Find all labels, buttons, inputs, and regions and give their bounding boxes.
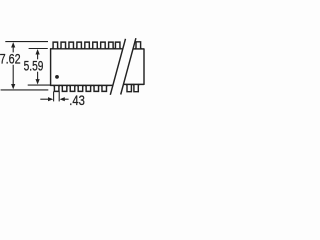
dimension arrow down (7.62)	[11, 84, 15, 89]
pin bottom-7	[101, 85, 108, 91]
dimension leader right (.43)	[64, 98, 69, 100]
dimension line upper segment (5.59)	[37, 53, 39, 60]
pin bottom-2	[61, 85, 68, 91]
package body top edge (right of break)	[133, 48, 144, 50]
IC package outline drawing (top view with break lines)	[0, 0, 145, 145]
pin 1 index dot	[55, 75, 59, 79]
pin top-2	[60, 42, 67, 49]
dimension line lower segment (5.59)	[37, 72, 39, 81]
pin top-3	[68, 42, 75, 49]
dimension arrow left-pointing (.43)	[60, 97, 65, 101]
pin top-1	[52, 42, 59, 49]
break line 2 (diagonal)	[121, 38, 136, 94]
extension line bottom (7.62, lead tips)	[1, 89, 49, 91]
pin bottom-3	[69, 85, 76, 91]
pin top-9	[114, 42, 121, 49]
extension line left (.43, lead width)	[53, 91, 55, 101]
pin top-right (after break)	[135, 42, 142, 49]
dimension arrow up (5.59)	[36, 49, 40, 54]
dimension arrow up (7.62)	[11, 42, 15, 47]
svg-text:7.62: 7.62	[0, 51, 21, 66]
extension line bottom (5.59, body edge)	[28, 84, 51, 86]
pin top-8	[108, 42, 115, 49]
pin top-7	[100, 42, 107, 49]
dimension arrow right-pointing (.43)	[48, 97, 53, 101]
extension line right (.43, lead width)	[58, 91, 60, 101]
break line 1 (diagonal)	[110, 39, 125, 95]
svg-text:.43: .43	[69, 93, 85, 108]
extension line top (5.59, body edge)	[29, 48, 48, 50]
svg-text:5.59: 5.59	[24, 58, 44, 73]
dimension line upper segment (7.62)	[12, 46, 14, 53]
dimension line lower segment (7.62)	[12, 65, 14, 86]
package body bottom edge (right of break)	[123, 83, 144, 85]
pin bottom-right-2 (after break)	[133, 84, 139, 92]
package body left edge	[50, 48, 52, 86]
pin bottom-6	[93, 85, 100, 91]
pin top-4	[76, 42, 83, 49]
pin bottom-4	[77, 85, 84, 91]
pin bottom-5	[85, 85, 92, 91]
package body right edge	[143, 48, 145, 85]
pin top-5	[84, 42, 91, 49]
package body top edge (left of break)	[50, 48, 123, 50]
dimension arrow down (5.59)	[36, 79, 40, 84]
pin bottom-right-1 (after break)	[126, 84, 132, 92]
pin top-6	[92, 42, 99, 49]
pin bottom-1	[53, 85, 60, 91]
extension line top (7.62, lead tips)	[5, 41, 48, 43]
dimension leader left (.43)	[40, 98, 49, 100]
package body bottom edge (left of break)	[50, 84, 113, 86]
